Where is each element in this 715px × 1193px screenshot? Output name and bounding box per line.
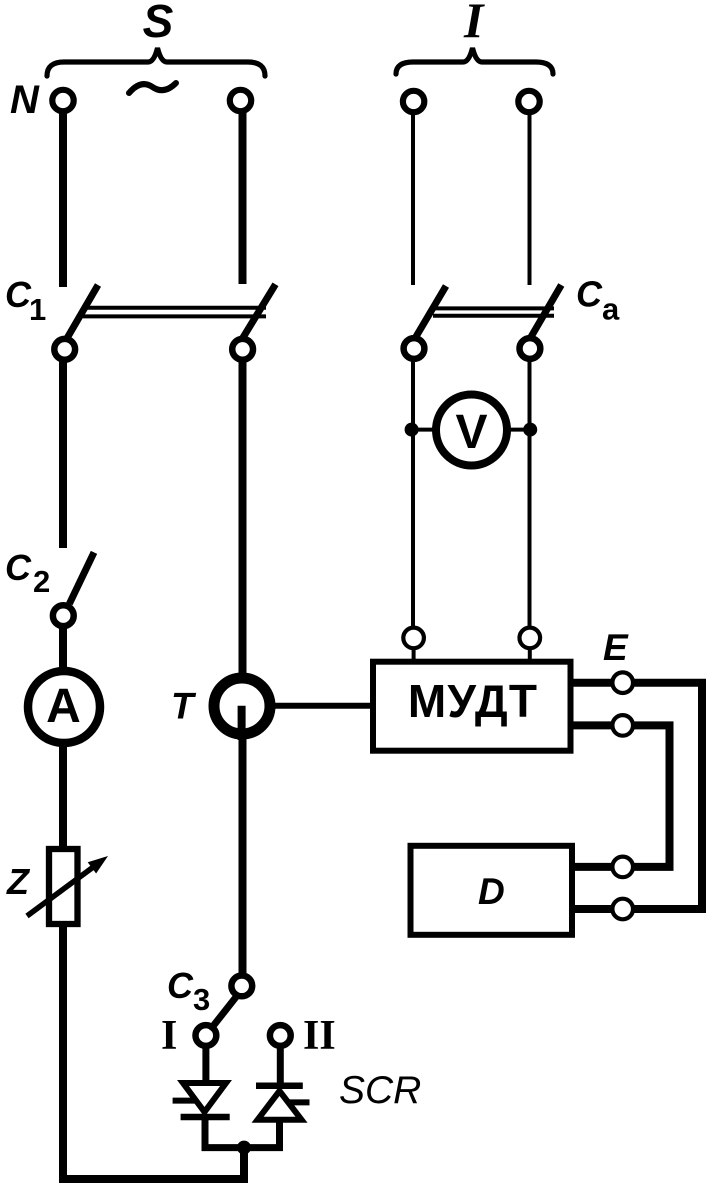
thyristor VS2 xyxy=(248,1044,310,1148)
svg-text:V: V xyxy=(455,406,487,459)
D input stub upper xyxy=(572,863,612,871)
D input terminal lower xyxy=(612,899,633,920)
svg-text:II: II xyxy=(303,1013,336,1059)
svg-text:C: C xyxy=(5,274,32,315)
svg-text:SCR: SCR xyxy=(339,1069,421,1112)
wire stub input right xyxy=(528,650,532,663)
terminal I left xyxy=(403,91,424,112)
contactor Ca right pole xyxy=(520,285,562,359)
svg-text:Z: Z xyxy=(6,861,31,902)
wire T down to C3 xyxy=(239,738,247,974)
MUDT output stub 1 xyxy=(570,679,611,687)
MUDT output terminal 1 xyxy=(612,672,633,693)
brace for measurement I xyxy=(396,48,553,74)
selector switch C3 xyxy=(196,976,291,1046)
svg-text:МУДТ: МУДТ xyxy=(408,675,538,727)
wire output 1 to D lower input xyxy=(634,683,702,909)
contactor C1 linkage bar xyxy=(83,308,266,317)
wire ammeter to Z xyxy=(59,742,67,847)
svg-text:D: D xyxy=(478,871,505,912)
junction dot xyxy=(237,1141,251,1155)
svg-text:a: a xyxy=(602,292,620,327)
wire C1 to C2 xyxy=(59,361,67,548)
MUDT output stub 2 xyxy=(570,721,611,729)
wire Ca left to MUDT xyxy=(411,360,415,628)
wire Ca right to MUDT xyxy=(528,360,532,628)
terminal L xyxy=(230,90,251,111)
svg-text:N: N xyxy=(10,78,40,122)
wire N down to C1 xyxy=(59,112,67,287)
block D xyxy=(411,846,573,935)
svg-text:I: I xyxy=(463,0,485,48)
svg-text:I: I xyxy=(161,1013,177,1059)
wire stub input left xyxy=(412,650,416,663)
wire T to MUDT block xyxy=(274,703,373,709)
wire I right down to Ca xyxy=(528,113,532,285)
wire C2 to ammeter xyxy=(59,627,67,668)
block MUDT xyxy=(373,662,571,751)
terminal N xyxy=(52,90,73,111)
wire L down to C1 xyxy=(239,112,247,284)
svg-text:E: E xyxy=(603,627,629,668)
svg-text:2: 2 xyxy=(33,564,50,599)
contactor C1 right pole xyxy=(232,284,275,359)
MUDT output terminal 2 xyxy=(612,715,633,736)
wire I left down to Ca xyxy=(411,113,415,285)
thyristor VS1 xyxy=(173,1044,240,1148)
wire Z to bottom rail xyxy=(63,924,244,1179)
variable impedance Z xyxy=(27,849,108,924)
MUDT input terminal right xyxy=(520,628,541,649)
svg-text:S: S xyxy=(143,0,174,47)
contactor C1 left pole xyxy=(54,285,98,360)
MUDT input terminal left xyxy=(403,628,424,649)
svg-text:A: A xyxy=(46,680,81,733)
svg-text:C: C xyxy=(5,547,32,588)
svg-text:C: C xyxy=(167,965,194,1006)
terminal I right xyxy=(518,91,539,112)
svg-text:1: 1 xyxy=(29,292,46,327)
current transformer T xyxy=(214,678,270,740)
svg-text:3: 3 xyxy=(193,982,210,1017)
contactor Ca left pole xyxy=(404,286,446,359)
ammeter A xyxy=(28,671,100,743)
AC source symbol ~ xyxy=(129,83,176,93)
svg-text:C: C xyxy=(576,274,603,315)
voltmeter V xyxy=(405,395,538,466)
wire C1 right pole down to T xyxy=(239,361,247,676)
wire output 2 to D upper input xyxy=(634,725,670,867)
brace for source S xyxy=(47,48,265,76)
D input stub lower xyxy=(572,905,612,913)
contactor Ca linkage bar xyxy=(433,308,554,315)
D input terminal upper xyxy=(612,857,633,878)
switch C2 xyxy=(53,552,94,626)
svg-text:T: T xyxy=(171,686,197,727)
